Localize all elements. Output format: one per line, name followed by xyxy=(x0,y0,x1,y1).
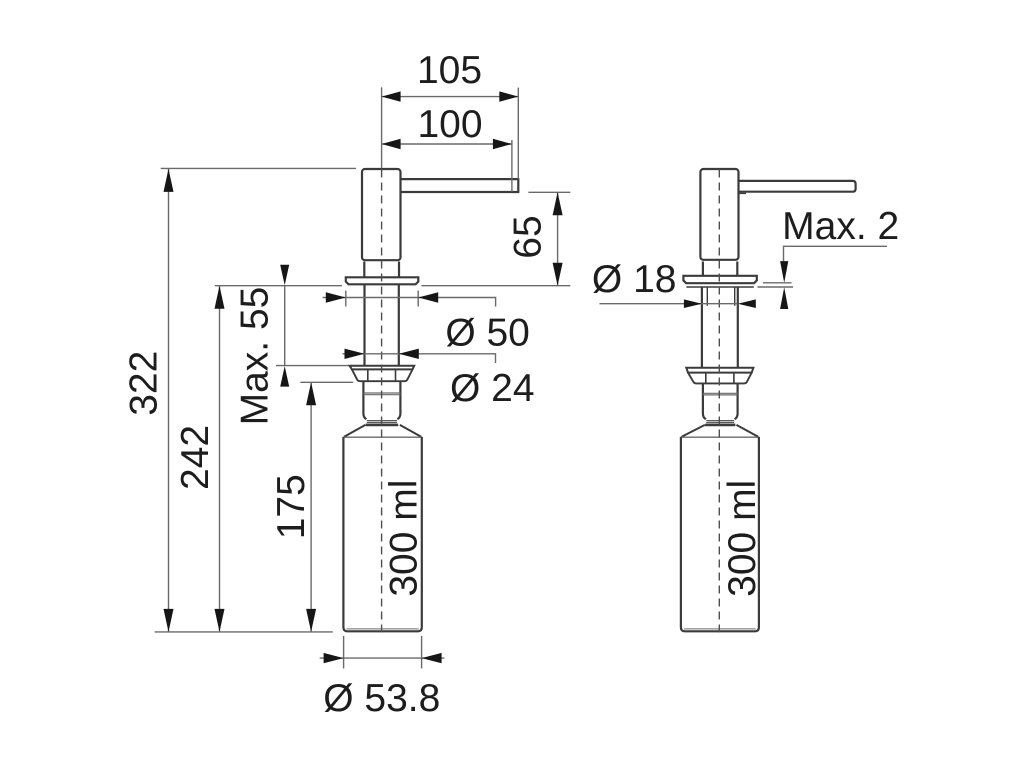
lower taper rings (side) xyxy=(706,421,734,423)
extension line flange level right xyxy=(421,285,570,287)
bottle bottom inner line (front) xyxy=(347,628,419,630)
bottle bottom inner line (side) xyxy=(684,628,756,630)
spout under-ledge (side) xyxy=(739,192,746,194)
arrow 105 left xyxy=(382,91,401,101)
extension line D53.8 left xyxy=(343,636,345,669)
extension line Max2 upper xyxy=(763,282,792,284)
svg-text:Max. 2: Max. 2 xyxy=(782,205,899,248)
extension line flange level left xyxy=(215,285,342,287)
extension line D50 right xyxy=(417,291,419,307)
extension line 105 right xyxy=(517,88,519,179)
bottle shoulder cone (side) xyxy=(681,425,758,437)
arrow 65 top xyxy=(553,192,563,215)
svg-text:Max. 55: Max. 55 xyxy=(234,287,277,426)
extension line 105/100 left (pump center) xyxy=(381,87,383,168)
lock nut top flange (side) xyxy=(686,368,753,373)
dim line 322 xyxy=(168,169,170,631)
arrow 322 bottom xyxy=(164,609,174,632)
lower taper rings (front) xyxy=(367,421,397,423)
extension line D53.8 right xyxy=(421,636,423,669)
threaded shaft tube (side) xyxy=(702,287,738,368)
dim line 105 xyxy=(382,96,518,98)
arrow 242 bottom xyxy=(215,609,225,632)
bottle shoulder crease line (front) xyxy=(344,436,422,438)
mounting flange (front) xyxy=(346,277,419,284)
arrow 175 top xyxy=(306,382,316,405)
arrow Max55 bottom (outside, pointing up) xyxy=(280,366,289,387)
svg-text:105: 105 xyxy=(417,49,482,92)
arrow 322 top xyxy=(164,169,174,192)
connector tube (front) xyxy=(363,381,400,419)
arrow D24 right (outside, pointing left) xyxy=(399,349,419,359)
svg-text:Ø 18: Ø 18 xyxy=(592,258,677,301)
extension line D50 left xyxy=(345,291,347,307)
dim line 242 xyxy=(219,286,221,631)
svg-text:Ø 50: Ø 50 xyxy=(445,311,530,354)
mounting flange (side) xyxy=(683,276,756,283)
arrow Max2 lower (skinny, pointing up) xyxy=(780,287,788,309)
dim/leader line D18 xyxy=(600,303,738,305)
extension line top (322) xyxy=(161,167,356,169)
extension line 65 top xyxy=(528,191,570,193)
arrow 100 left xyxy=(382,139,401,149)
extension line Max2 lower xyxy=(758,286,794,288)
extension line 100 right xyxy=(511,140,513,192)
dim/leader line D50 xyxy=(323,298,496,307)
arrow D53.8 left (outside, pointing right) xyxy=(324,653,344,663)
svg-text:322: 322 xyxy=(123,351,166,416)
bottle body (side) xyxy=(681,437,759,631)
arrow 65 bottom xyxy=(553,263,563,286)
dim/leader line D24 xyxy=(343,354,496,363)
dim line 175 xyxy=(310,383,312,632)
threaded shaft tube (front) xyxy=(365,284,399,365)
arrow Max2 upper (skinny, pointing down) xyxy=(780,261,788,283)
shaft inner thread lines (side) xyxy=(707,287,734,306)
arrow 242 top xyxy=(215,286,225,309)
lock nut top flange (front) xyxy=(350,366,415,370)
bottle shoulder cone (front) xyxy=(344,425,422,437)
hex nut body (front) xyxy=(352,369,413,381)
arrow 105 right xyxy=(499,91,518,101)
centerline (side) xyxy=(718,170,720,635)
connector tube (side) xyxy=(703,383,738,419)
arrow D24 left (outside, pointing right) xyxy=(345,349,365,359)
bottle shoulder crease line (side) xyxy=(681,436,758,438)
hex nut facets (front) xyxy=(368,370,396,381)
arrow D50 left (outside, pointing right) xyxy=(326,292,346,302)
svg-text:100: 100 xyxy=(417,103,482,146)
hex nut body (side) xyxy=(688,373,752,384)
svg-text:242: 242 xyxy=(174,425,217,490)
Max. 2 leader line xyxy=(784,246,888,261)
arrow 100 right xyxy=(493,139,512,149)
arrow D53.8 right (outside, pointing left) xyxy=(422,653,442,663)
svg-text:300 ml: 300 ml xyxy=(382,480,425,597)
arrow D18 left (outside, pointing right) xyxy=(684,299,702,308)
svg-text:65: 65 xyxy=(507,215,550,258)
extension line Max55 bottom xyxy=(276,365,349,367)
connector seam lines (front) xyxy=(363,393,400,395)
neck (front) xyxy=(364,262,399,278)
dim line Max. 55 xyxy=(284,286,286,366)
hex nut facets (side) xyxy=(706,373,734,383)
centerline (front) xyxy=(381,170,383,635)
connector seam lines (side) xyxy=(703,393,738,395)
dim line 100 xyxy=(382,143,511,145)
bottle body (front) xyxy=(343,437,421,631)
spout arm (side, rounded tip) xyxy=(739,181,856,192)
extension line bottom (322/242/175) xyxy=(155,631,333,633)
dim line D53.8 xyxy=(320,657,445,659)
under-flange gasket line (side) xyxy=(686,286,753,288)
svg-text:Ø 24: Ø 24 xyxy=(450,367,535,410)
arrow Max55 top (outside, pointing down) xyxy=(280,265,289,286)
pump head body (side) xyxy=(700,169,738,260)
neck (side) xyxy=(703,262,737,276)
arrow D50 right (outside, pointing left) xyxy=(418,292,438,302)
arrow 175 bottom xyxy=(306,609,316,632)
spout arm (front) xyxy=(401,179,519,192)
extension line 175 top xyxy=(300,381,353,383)
svg-text:175: 175 xyxy=(270,474,313,539)
svg-text:Ø 53.8: Ø 53.8 xyxy=(323,677,440,720)
svg-text:300 ml: 300 ml xyxy=(721,480,764,597)
dim line 65 xyxy=(557,193,559,285)
arrow D18 right (outside, pointing left) xyxy=(738,299,756,308)
pump head body (front) xyxy=(362,169,401,260)
